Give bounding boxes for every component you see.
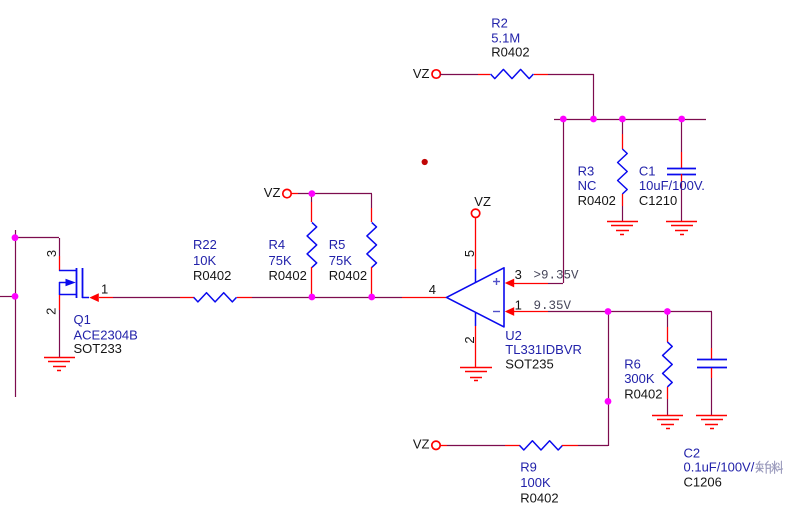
svg-text:300K: 300K [624,371,655,386]
svg-text:R0402: R0402 [193,268,231,283]
svg-text:R0402: R0402 [329,268,367,283]
svg-text:3: 3 [44,250,59,257]
svg-text:VZ: VZ [413,66,430,81]
svg-text:VZ: VZ [474,194,491,209]
svg-text:ACE2304B: ACE2304B [74,327,138,342]
svg-text:SOT233: SOT233 [74,341,122,356]
svg-text:0.1uF/100V/: 0.1uF/100V/ [684,459,755,474]
svg-text:2: 2 [43,308,58,315]
svg-text:100K: 100K [520,475,551,490]
svg-text:VZ: VZ [264,185,281,200]
svg-text:5.1M: 5.1M [491,30,520,45]
svg-text:R0402: R0402 [520,491,558,506]
svg-text:C1210: C1210 [639,193,677,208]
svg-text:R4: R4 [269,237,286,252]
svg-text:>9.35V: >9.35V [534,268,580,282]
svg-text:R0402: R0402 [269,268,307,283]
svg-text:R22: R22 [193,237,217,252]
svg-text:TL331IDBVR: TL331IDBVR [505,342,582,357]
svg-text:VZ: VZ [413,437,430,452]
svg-text:C1206: C1206 [684,475,722,490]
svg-text:9.35V: 9.35V [534,299,572,313]
svg-text:3: 3 [515,267,522,282]
svg-text:C1: C1 [639,164,656,179]
svg-text:75K: 75K [329,253,352,268]
svg-text:5: 5 [462,250,477,257]
svg-text:1: 1 [101,281,108,296]
svg-text:75K: 75K [269,253,292,268]
svg-text:R3: R3 [578,164,595,179]
svg-text:R2: R2 [491,16,508,31]
svg-text:R0402: R0402 [578,193,616,208]
svg-text:C2: C2 [684,445,701,460]
svg-text:R0402: R0402 [491,45,529,60]
svg-text:4: 4 [429,282,436,297]
svg-text:2: 2 [462,336,477,343]
svg-text:1: 1 [515,297,522,312]
svg-text:U2: U2 [505,328,522,343]
svg-text:10K: 10K [193,253,216,268]
svg-text:R9: R9 [520,459,537,474]
svg-text:R5: R5 [329,237,346,252]
svg-text:Q1: Q1 [74,312,91,327]
svg-text:10uF/100V.: 10uF/100V. [639,178,705,193]
svg-text:R0402: R0402 [624,387,662,402]
svg-text:NC: NC [578,178,597,193]
svg-text:R6: R6 [624,356,641,371]
svg-text:SOT235: SOT235 [505,356,553,371]
